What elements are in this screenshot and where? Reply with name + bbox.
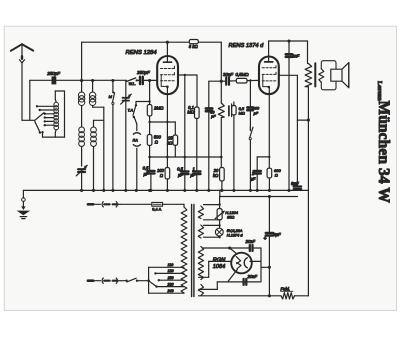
svg-text:0,4 A: 0,4 A [152,207,161,212]
capacitor 2nF [286,41,300,190]
power transformer T1 primary [181,207,187,293]
tube V2 RENS 1374 d [229,41,279,94]
mains switch [125,278,148,282]
capacitor 0,5µF (cathode chain) [143,166,155,191]
wire screen V2 to B+ [279,75,310,186]
svg-text:kΩ: kΩ [213,173,219,178]
svg-text:8µF: 8µF [273,232,281,237]
capacitor 1µF [190,166,200,190]
mains connector (line 1) [88,202,152,207]
coil L3a [89,81,95,106]
wire cathode V2 [257,94,270,170]
svg-text:kΩ: kΩ [167,140,172,145]
wire RGN right lead [250,261,271,268]
resistor 100Ω [157,168,170,191]
wire L3 to tuning [93,106,104,191]
resistor R1 5 kΩ [189,40,199,50]
svg-text:W.L.: W.L. [129,82,136,86]
switch T.A. [128,102,150,119]
output transformer T2 [305,61,336,296]
svg-text:300: 300 [253,107,260,111]
resistor 0,1 MΩ [187,105,199,171]
trimmer capacitor (tuning) [121,81,132,191]
wire main ground bus [23,189,308,192]
trimmer capacitor (wavetrap) [76,165,87,190]
svg-text:RENS 1374 d: RENS 1374 d [229,43,265,49]
wire screen-grid V1 [178,74,197,171]
wire RGN cathode loop [199,270,261,290]
capacitor 8µF (reservoir) [264,197,281,296]
wire AVC line [148,156,222,159]
power transformer secondary S4 [198,285,203,296]
capacitor 2µF [251,171,261,190]
switch W.L. [126,78,140,86]
wire top bus (HT rail) [82,41,222,82]
svg-text:0,5: 0,5 [143,166,149,171]
svg-text:220: 220 [167,282,174,286]
wire anode bus V2 [269,39,308,63]
svg-text:30nF: 30nF [223,72,233,77]
svg-text:250pF: 250pF [46,71,60,76]
resistor 600Ω [267,168,281,191]
dial lamp 5V 0,23A [204,220,244,239]
capacitor C1 250pF [46,71,60,85]
svg-text:2nF: 2nF [291,53,300,58]
svg-text:Ω: Ω [275,172,278,177]
resistor 0,5 MΩ (diode load) [232,102,245,190]
capacitor 0,5µF (screen) [177,166,188,190]
svg-text:Ω: Ω [160,173,163,178]
switch (tone) [249,127,253,190]
svg-text:0,5: 0,5 [177,166,183,171]
svg-text:+: + [292,182,295,187]
power transformer core [192,205,194,297]
svg-text:MΩ: MΩ [187,110,194,115]
svg-text:pF: pF [253,111,259,115]
svg-text:µF: µF [251,176,256,181]
svg-text:250pF: 250pF [136,70,150,75]
antenna coil L1 with band switch [30,80,65,137]
capacitor 20nF (anode) [245,239,262,281]
resistor 500Ω [147,135,161,171]
power transformer secondary S2 [198,225,203,238]
svg-text:2MΩ: 2MΩ [153,105,164,110]
svg-text:München 34 W: München 34 W [375,101,392,204]
svg-text:RGN: RGN [213,258,226,264]
coil L2b [79,106,85,167]
svg-text:µF: µF [178,172,183,177]
capacitor 8µF (B+ filter) [291,181,301,190]
coil L2a [78,81,84,106]
resistor 15 kΩ [167,135,177,157]
svg-text:Feld.: Feld. [281,286,291,291]
svg-text:MΩ: MΩ [239,111,245,116]
capacitor (L4 parallel plate) [229,104,232,117]
wire heater bus [220,190,298,198]
tube V1 RENS 1284 [126,42,179,94]
svg-text:F.A: F.A [133,138,139,142]
resistor 0,5MΩ (grid stopper) [229,72,259,83]
capacitor 30nF [223,72,233,85]
wire HV to anode [203,246,250,254]
field coil Feld [281,286,295,299]
resistor 20 kΩ [213,168,225,191]
svg-text:T.A: T.A [128,109,134,113]
svg-text:150: 150 [168,276,174,280]
svg-text:35Ω: 35Ω [227,215,234,220]
coil L4 (IF) [218,81,224,167]
antenna [11,44,35,120]
wire 5kΩ feed [209,80,226,83]
wire cathode link [150,94,176,168]
wire B+ return [199,294,309,297]
ground symbol [17,190,31,218]
rheostat H.1204 35Ω [204,197,239,222]
svg-text:RENS 1284: RENS 1284 [126,50,158,56]
mains connector (line 2) [88,278,126,283]
coil L3b [91,127,97,190]
power transformer secondary S3 (HV) [198,247,203,280]
svg-text:µF: µF [144,172,149,177]
capacitor 30pF [206,81,216,190]
svg-text:20nF: 20nF [247,274,258,279]
capacitor C2 250pF [136,70,157,84]
svg-text:1: 1 [192,166,194,171]
svg-text:120: 120 [168,269,174,273]
wire RGN left lead [199,261,232,277]
svg-text:1064: 1064 [213,264,225,270]
loudspeaker [331,63,349,88]
pickup jack F.A. [133,117,141,190]
svg-text:H.1374 d: H.1374 d [227,232,244,237]
svg-text:20nF: 20nF [245,239,256,244]
node grid-line junctions [80,79,114,82]
svg-text:0,5MΩ: 0,5MΩ [236,72,250,77]
tube V3 RGN 1064 [213,253,252,274]
fuse 0,4 A [152,202,184,211]
svg-text:pF: pF [210,114,216,118]
voltage selector [147,263,184,293]
capacitor 300pF [247,80,260,130]
power transformer secondary S1 [198,206,203,219]
svg-text:µF: µF [190,172,195,177]
svg-text:+: + [264,236,267,242]
svg-text:Lorenz: Lorenz [376,81,383,101]
resistor 2MΩ [147,79,164,135]
wire antenna coupling [30,79,126,81]
svg-text:5 kΩ: 5 kΩ [189,44,199,49]
svg-text:240: 240 [167,289,174,293]
trimmer capacitor M [109,81,115,191]
svg-text:110: 110 [168,263,174,267]
capacitor 20nF (cathode) [244,274,258,285]
